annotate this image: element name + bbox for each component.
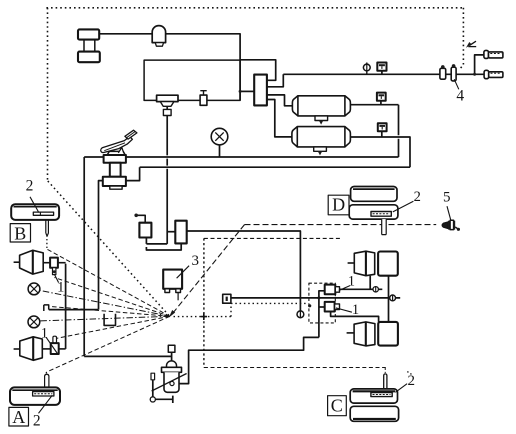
cab dotted border top [46, 7, 463, 9]
pressure sensor on upper tank [377, 93, 386, 105]
wire: riser into relay valves [319, 291, 325, 338]
dotted line to small dashed box [231, 302, 308, 304]
rear brake chamber lower [347, 322, 398, 346]
junction circle on rear line [390, 295, 396, 302]
wire: foot valve upper-left long descent [83, 157, 85, 356]
frame: chassis dashed rectangle left edge [203, 238, 205, 367]
front brake chamber upper [14, 250, 44, 274]
wire: front QR valves riser [65, 264, 67, 349]
leader line label 1 rear lower [336, 308, 352, 312]
dotted leader tank A pipe [45, 372, 47, 375]
relay valve lower [325, 302, 340, 312]
wire: QR valve upper outlet [58, 262, 66, 264]
fan ray to upper QR valve stem [54, 278, 169, 317]
junction dot relay feed [317, 296, 320, 299]
leader line label 1 rear upper [339, 286, 350, 291]
wire: relay upper to chamber junction [340, 288, 383, 290]
hose fitting 1 on trailer line [440, 65, 446, 79]
wire: protection valve port to lower air tank [267, 100, 292, 137]
chamber D stack [349, 187, 398, 235]
tank B [11, 204, 59, 236]
lower air tank [292, 127, 351, 156]
air dryer [152, 26, 165, 47]
junction circle on relay upper line [373, 286, 378, 292]
upper air tank [292, 96, 350, 125]
dotted diagonal from cab border to fan point [48, 181, 170, 316]
wire: upper tank to sensor line [350, 104, 398, 106]
svg-text:3: 3 [191, 253, 199, 269]
relay valve upper [325, 285, 340, 295]
pressure sensor on lower tank [378, 123, 387, 137]
leader line label 3 [177, 266, 190, 279]
cab dotted border right [460, 8, 463, 69]
component 3 box [163, 270, 182, 301]
wire: air dryer to right descent [166, 34, 241, 60]
inline stop valve on trailer line [363, 63, 370, 75]
junction dot on small dashed box edge [308, 304, 311, 307]
wire: chamber to QR valve lower [42, 348, 50, 350]
frame: chassis dashed rectangle bottom edge [204, 367, 386, 369]
svg-text:D: D [332, 195, 345, 215]
wire: chamber to QR valve [43, 262, 50, 264]
wire: rect to protection valve inlet [240, 90, 254, 92]
dashed leader line to component 5 [245, 224, 437, 226]
wire: load valve outlet staircase to rear [179, 337, 319, 383]
svg-text:C: C [331, 395, 343, 415]
fan ray to lamp 2 (dash-dot) [40, 316, 170, 321]
svg-text:B: B [14, 223, 26, 243]
fan ray to lower QR valve cap [55, 316, 170, 338]
label box A [9, 407, 29, 426]
svg-text:2: 2 [414, 189, 421, 205]
wire: trailer supply line to couplings [283, 73, 484, 75]
leader line label 4 [454, 79, 459, 89]
svg-text:2: 2 [33, 413, 41, 430]
svg-text:A: A [12, 407, 25, 427]
svg-text:2: 2 [26, 177, 34, 194]
svg-text:2: 2 [408, 373, 416, 389]
lower hose coupling head [484, 70, 503, 78]
fan ray to lamp 1 (dash-dot) [40, 291, 170, 317]
svg-text:5: 5 [443, 189, 451, 205]
small dashed box around relay valves [309, 283, 335, 323]
wire: branch up to upper coupling [475, 55, 484, 74]
inline valve circle on hand brake line [297, 311, 304, 318]
svg-text:1: 1 [57, 280, 64, 296]
wire: lower tank line wrap [350, 137, 410, 167]
front brake chamber lower [14, 337, 43, 361]
T-fitting under reservoir rect [157, 95, 178, 109]
rear brake chamber upper [348, 251, 398, 276]
wire: protection valve port 21 to trailer supply line [267, 74, 283, 87]
fan ray to tank B pipe [47, 249, 170, 316]
wire: hand valve to rear ramp [187, 231, 301, 311]
frame: chassis dashed rectangle top edge [204, 237, 342, 239]
QR valve front upper [50, 258, 58, 275]
warning lamp 2 [28, 316, 40, 328]
wire: service line A from foot valve to rear [84, 156, 398, 158]
connector square at rear line start [223, 294, 231, 303]
dotted leader tank B pipe [46, 236, 48, 248]
svg-text:1: 1 [41, 325, 48, 341]
wire: to load sensing valve [84, 355, 171, 357]
hose fitting 2 on trailer line [451, 64, 456, 81]
leader line label 5 [447, 206, 451, 220]
tank A [10, 374, 60, 405]
wire: over-the-top into protection valve right port [240, 60, 276, 81]
arrow at cab border right [466, 41, 476, 48]
foot brake valve [103, 151, 126, 189]
hand brake valve [134, 214, 186, 251]
drain valve on reservoir rect [200, 91, 207, 106]
leader line label 1 lower [46, 337, 57, 353]
component 5 pressure switch [442, 220, 460, 231]
four-circuit protection valve U1 [254, 75, 267, 106]
pressure gauge [211, 128, 228, 157]
cab dotted border left [47, 8, 49, 181]
svg-text:1: 1 [352, 302, 359, 318]
label box C [328, 396, 347, 416]
compressor [78, 29, 100, 62]
leader line label 2 of A [39, 395, 53, 413]
wire: T-fitting stem down to hand valve (hops at lines A,B) [166, 116, 168, 244]
dotted ray right of fan point [174, 316, 232, 318]
junction dot at coupling branch [473, 73, 476, 76]
reservoir/supply rectangle [144, 60, 240, 100]
dashed diagonal leader to fan point [173, 225, 245, 314]
svg-text:4: 4 [456, 87, 464, 104]
dots toward label 2 of C [407, 372, 413, 376]
junction dot at rect outlet [239, 90, 242, 93]
wire: foot valve lower-left port descent [99, 181, 103, 310]
QR valve front lower [51, 336, 59, 354]
u-shaped switch symbol [104, 314, 115, 326]
warning lamp 1 [28, 283, 40, 295]
wire: front axle line [49, 309, 99, 311]
fan point arrowhead [169, 310, 175, 318]
cross mark on dashed frame edge [201, 313, 207, 320]
wire: spring can riser down [388, 276, 390, 322]
brake pedal [101, 130, 137, 153]
wire: chamber to relay line [369, 276, 371, 290]
leader line label 2 of C [395, 384, 407, 393]
wire: QR valve lower outlet [59, 348, 66, 350]
dotted link to tank C pipe [384, 368, 386, 373]
label box B [10, 224, 30, 242]
chamber C stack [350, 374, 398, 421]
dotted riser at x231 [230, 303, 232, 316]
fan ray to tank A pipe [47, 316, 170, 372]
label box D [328, 195, 349, 215]
wire: compressor to air dryer [99, 33, 152, 35]
wire: reservoir rect right edge shared descent [239, 60, 241, 100]
svg-text:1: 1 [348, 274, 355, 290]
wire: service line B from foot valve to rear wrap [140, 166, 410, 168]
pressure sensor on trailer line [377, 63, 386, 75]
hook connector at front line end [44, 305, 49, 311]
wire: relay lower to lower chamber [331, 312, 379, 322]
connector square on T-fitting stem [163, 109, 171, 115]
wire: rear service line [231, 297, 400, 299]
leader line label 2 of D [393, 201, 414, 212]
leader line label 1 front upper [54, 274, 58, 283]
leader line label 2 of B [30, 197, 39, 213]
wire: protection valve port to upper air tank [267, 95, 293, 106]
junction dot front line [64, 308, 67, 311]
wire: line B elbow to foot valve lower-right port [126, 167, 140, 180]
wire: relay lower valve feed [319, 306, 325, 308]
fan ray to hook connector [49, 306, 170, 316]
upper hose coupling head [484, 50, 503, 58]
wire: descent from upper tank line (hop at lower tank line) [398, 105, 400, 157]
load sensing valve assembly [150, 345, 186, 403]
